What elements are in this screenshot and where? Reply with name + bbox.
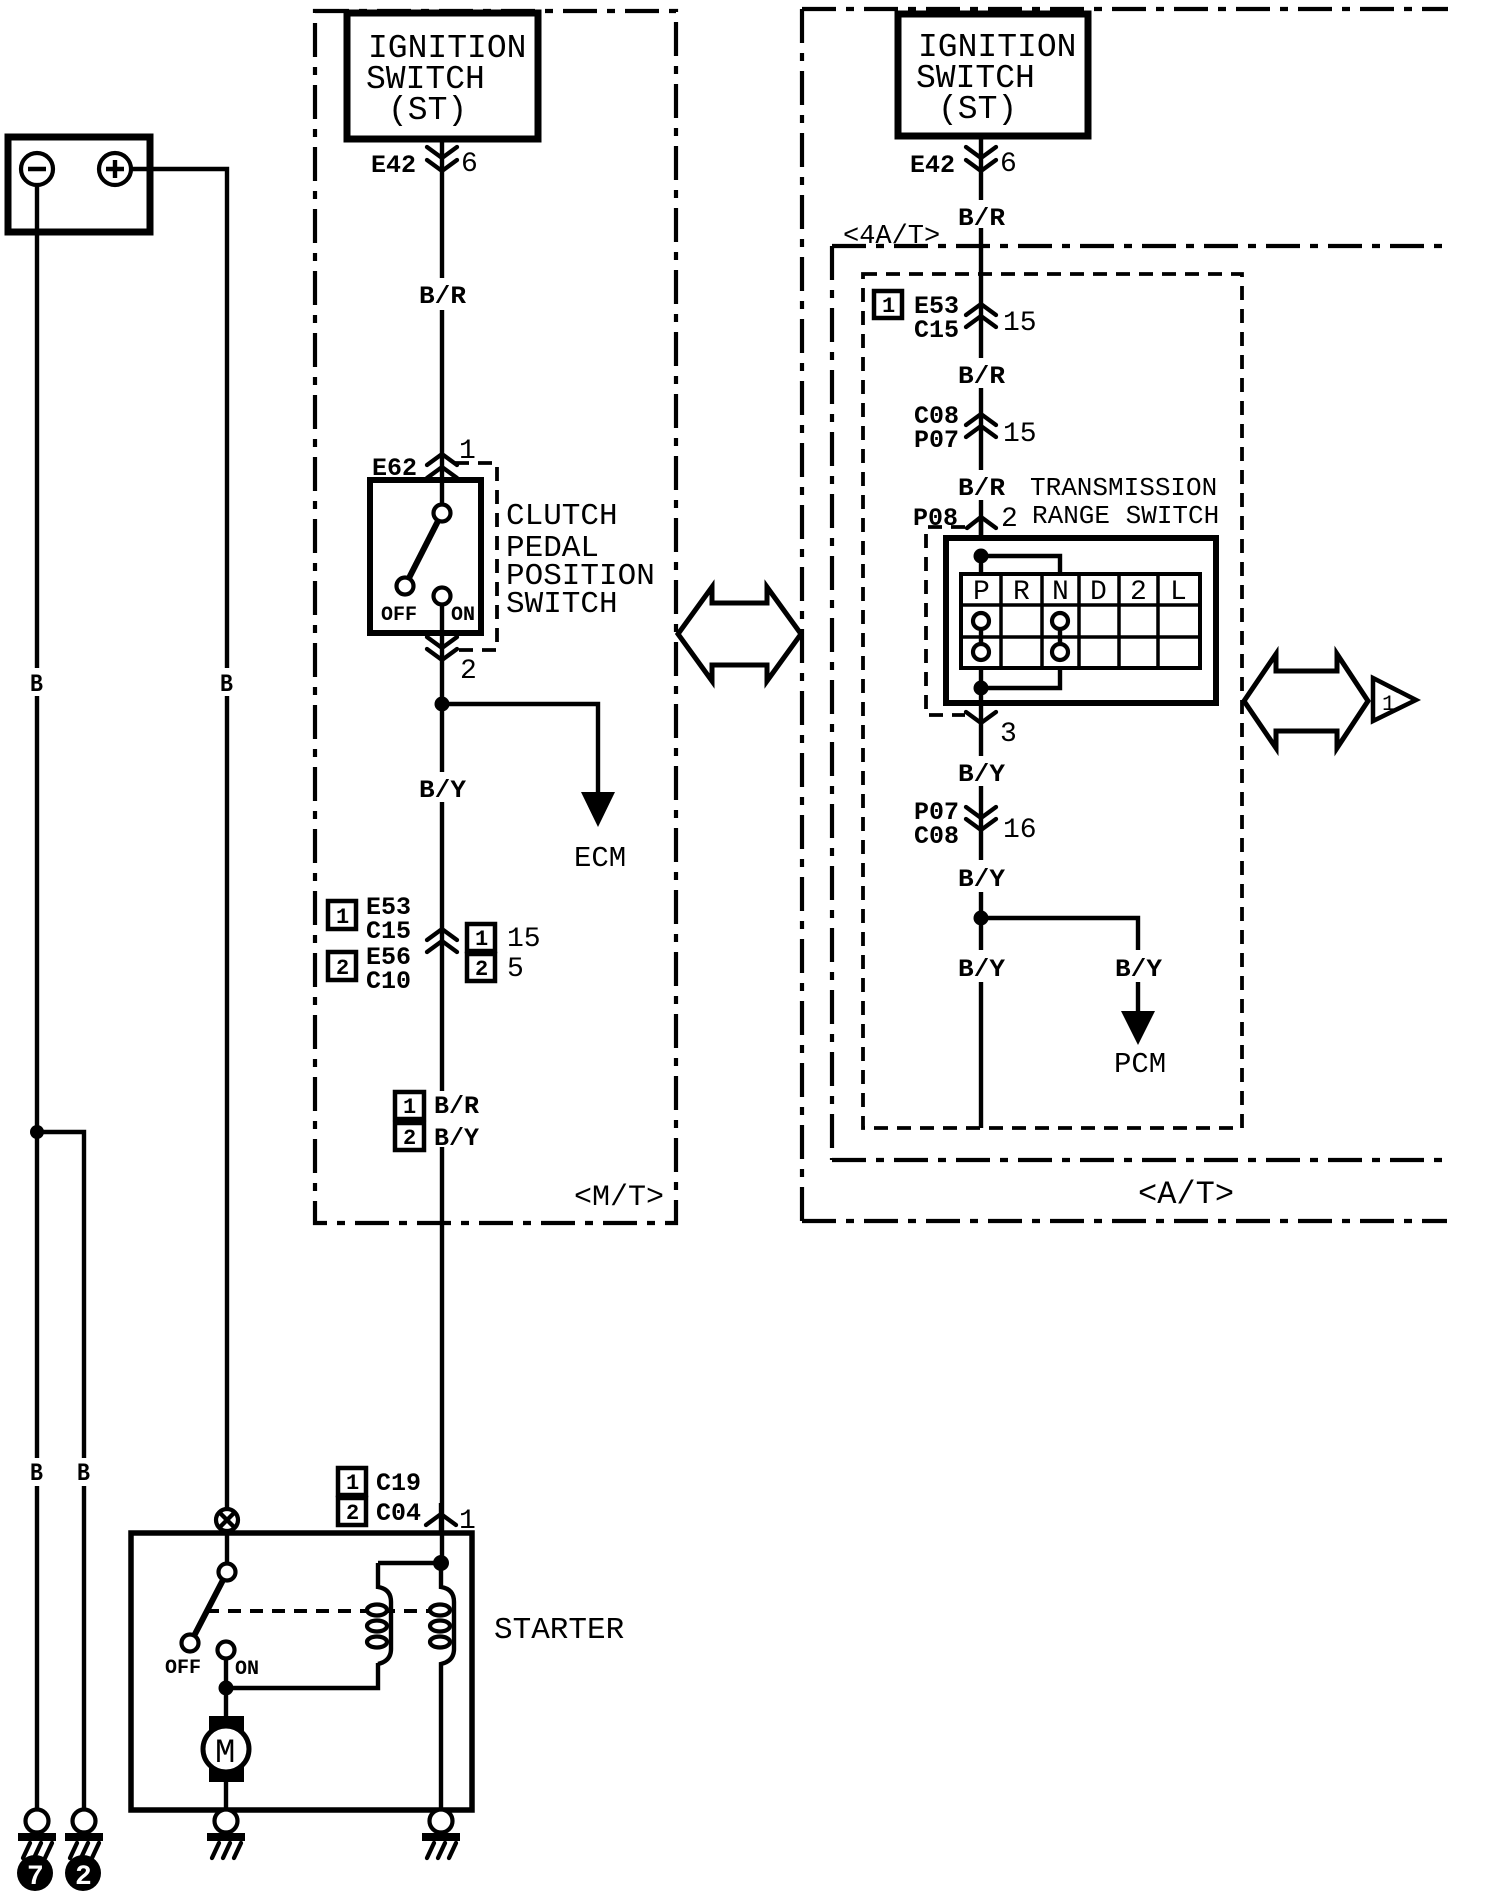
svg-text:B: B (30, 1459, 43, 1488)
svg-text:CLUTCH: CLUTCH (506, 499, 618, 534)
svg-text:C08: C08 (914, 822, 959, 851)
svg-text:B: B (220, 670, 233, 699)
svg-text:B/R: B/R (958, 362, 1005, 391)
wire B/Y segment 1 (979, 723, 983, 860)
battery positive terminal (99, 153, 131, 185)
svg-text:B/Y: B/Y (958, 865, 1005, 894)
arrow to ECM (581, 792, 615, 827)
ground symbol 7 (18, 1810, 56, 1859)
ground starter motor (207, 1810, 245, 1859)
starter switch lever (194, 1580, 223, 1636)
svg-text:(ST): (ST) (388, 92, 467, 129)
wire ON contact to motor (224, 1658, 228, 1717)
svg-text:2: 2 (346, 1501, 359, 1526)
M/T section boundary (315, 11, 676, 1223)
wire label B/Y (M/T) (419, 776, 466, 805)
connector E42 pin 6 (M/T) (371, 147, 478, 180)
starter switch ON contact (218, 1642, 260, 1682)
connector E42 pin 6 (A/T) (910, 147, 1017, 180)
node B/Y branch (974, 911, 989, 926)
svg-text:B/Y: B/Y (419, 776, 466, 805)
svg-text:PCM: PCM (1114, 1048, 1166, 1081)
svg-text:1: 1 (475, 927, 488, 952)
wire clutch switch to node (440, 633, 444, 704)
wire ground branch (37, 1132, 84, 1810)
svg-text:B: B (30, 670, 43, 699)
connector pin 3 below range switch (966, 712, 1017, 750)
svg-text:1: 1 (882, 294, 895, 319)
ignition switch (ST) M/T (347, 13, 538, 139)
svg-text:B/Y: B/Y (1115, 955, 1162, 984)
connector circle on positive wire (216, 1509, 238, 1531)
wire P column to bottom node (979, 668, 983, 688)
svg-text:L: L (1170, 577, 1187, 608)
svg-text:ON: ON (235, 1658, 259, 1681)
battery negative terminal (21, 153, 53, 185)
battery (8, 137, 150, 232)
svg-text:B/Y: B/Y (958, 760, 1005, 789)
svg-text:M: M (215, 1735, 235, 1773)
svg-text:B/Y: B/Y (434, 1124, 479, 1153)
node negative wire junction (30, 1125, 44, 1139)
svg-text:ECM: ECM (574, 842, 626, 875)
connector E53/C15 pin 15 (A/T) (874, 291, 1037, 345)
svg-text:STARTER: STARTER (494, 1613, 624, 1648)
connector C19/C04 pin 1 (338, 1468, 476, 1537)
starter switch contact top (219, 1531, 236, 1581)
connector P08 pin 2 (913, 504, 1018, 535)
svg-text:OFF: OFF (381, 604, 417, 627)
svg-text:1: 1 (336, 905, 349, 930)
wire into starter (439, 1503, 443, 1533)
svg-text:B: B (77, 1459, 90, 1488)
svg-text:B/R: B/R (958, 204, 1005, 233)
svg-text:C15: C15 (366, 917, 411, 946)
svg-text:2: 2 (1130, 577, 1147, 608)
PCM label (1114, 1048, 1166, 1081)
wire junction to pull coil (378, 1561, 441, 1565)
svg-text:2: 2 (403, 1126, 416, 1151)
svg-text:E42: E42 (371, 151, 416, 180)
transmission dashed boundary (863, 274, 1242, 1128)
arrow to PCM (1121, 1011, 1155, 1045)
wire label B/Y (A/T 4) (1115, 955, 1162, 984)
wire B/Y segment 2 (979, 892, 983, 950)
wire color labels [1] B/R [2] B/Y (395, 1092, 479, 1153)
solenoid hold-in coil (367, 1563, 391, 1664)
svg-text:15: 15 (507, 924, 541, 955)
connector C08/P07 pin 15 (914, 402, 1037, 455)
wire branch to ECM (442, 704, 598, 792)
svg-text:(ST): (ST) (938, 91, 1017, 128)
node starter motor junction (219, 1681, 234, 1696)
range switch P contacts (973, 613, 989, 660)
wire to starter connector (440, 1147, 444, 1563)
svg-text:6: 6 (461, 149, 478, 180)
transmission range switch label (1030, 473, 1219, 531)
svg-text:1: 1 (403, 1095, 416, 1120)
transmission range switch box (946, 538, 1216, 703)
svg-text:15: 15 (1003, 308, 1037, 339)
clutch pedal position switch E62 (370, 480, 481, 633)
connector pin 2 below clutch switch (427, 637, 477, 687)
svg-text:SWITCH: SWITCH (506, 587, 618, 622)
wire out of range switch (979, 688, 983, 723)
wire label B (negative lower) (30, 1459, 43, 1488)
wire B/R segment 2 (979, 388, 983, 470)
starter label (494, 1613, 624, 1648)
wire ignition to clutch switch (440, 139, 444, 480)
svg-text:P07: P07 (914, 426, 959, 455)
wire battery positive to starter (131, 169, 227, 1509)
wire battery negative to ground (35, 185, 39, 1810)
wire ignition A/T down (979, 136, 983, 358)
section link arrow A/T continuation (1244, 654, 1368, 748)
node range switch top (974, 549, 989, 564)
wire B/Y to boundary (979, 982, 983, 1128)
svg-text:2: 2 (75, 1862, 92, 1893)
ground number 2 (65, 1855, 101, 1893)
svg-text:2: 2 (1001, 504, 1018, 535)
svg-text:B/R: B/R (419, 282, 466, 311)
svg-text:2: 2 (475, 957, 488, 982)
4A/T section boundary (832, 246, 1444, 1160)
svg-text:3: 3 (1000, 719, 1017, 750)
node clutch switch output (435, 697, 450, 712)
svg-text:<4A/T>: <4A/T> (843, 222, 940, 252)
svg-text:OFF: OFF (165, 1657, 201, 1680)
wire node to hold coil (226, 1663, 378, 1688)
svg-text:C19: C19 (376, 1469, 421, 1498)
P08 dashed outline (926, 527, 965, 715)
svg-text:R: R (1013, 577, 1030, 608)
svg-text:B/R: B/R (958, 474, 1005, 503)
wire N column to bottom node (981, 668, 1060, 688)
wire node to N column (981, 556, 1060, 574)
wire label B (branch) (77, 1459, 90, 1488)
4A/T label (843, 222, 940, 252)
svg-text:1: 1 (1382, 692, 1395, 717)
wire label B/Y (A/T 1) (958, 760, 1005, 789)
ground starter coil (422, 1810, 460, 1859)
ECM label (574, 842, 626, 875)
off-page reference triangle 1 (1373, 678, 1416, 721)
solenoid pull-in coil (430, 1563, 454, 1810)
clutch pedal position switch label (506, 499, 655, 622)
wire B/R segment 3 (979, 500, 983, 556)
svg-text:1: 1 (346, 1471, 359, 1496)
A/T section label (1138, 1176, 1234, 1213)
svg-text:B/R: B/R (434, 1092, 479, 1121)
wire label B/Y (A/T 3) (958, 955, 1005, 984)
starter switch OFF contact (165, 1635, 201, 1681)
connector P07/C08 pin 16 (914, 798, 1037, 851)
wire label B/R (M/T) (419, 282, 466, 311)
svg-text:N: N (1052, 577, 1069, 608)
section link arrow M/T to A/T (678, 587, 801, 681)
svg-text:C04: C04 (376, 1499, 421, 1528)
svg-text:<A/T>: <A/T> (1138, 1176, 1234, 1213)
range switch N contacts (1052, 613, 1068, 660)
clutch pedal position switch dashed outline (452, 463, 497, 650)
ignition switch (ST) A/T (898, 14, 1088, 136)
wire label B/Y (A/T 2) (958, 865, 1005, 894)
wire node to P column (979, 556, 983, 574)
svg-text:E42: E42 (910, 151, 955, 180)
mechanical link dashed (206, 1609, 438, 1613)
svg-text:5: 5 (507, 954, 524, 985)
svg-text:RANGE SWITCH: RANGE SWITCH (1032, 501, 1219, 531)
wire label B/R (A/T 1) (958, 204, 1005, 233)
svg-text:15: 15 (1003, 419, 1037, 450)
ground number 7 (17, 1855, 53, 1893)
starter box (131, 1533, 472, 1810)
starter motor M (203, 1716, 249, 1810)
wire label B/R (A/T 2) (958, 362, 1005, 391)
connector E53/C15 E56/C10 (M/T) (328, 893, 541, 996)
grid letters P R N D 2 L (973, 577, 1187, 608)
range switch grid (961, 574, 1200, 668)
svg-text:7: 7 (27, 1862, 44, 1893)
node pull coil top (433, 1555, 449, 1571)
M/T section label (574, 1181, 664, 1215)
svg-text:D: D (1090, 577, 1107, 608)
A/T section boundary (802, 9, 1448, 1221)
wire B/Y down from node (440, 704, 444, 1091)
svg-text:2: 2 (336, 956, 349, 981)
wire label B (battery positive) (220, 670, 233, 699)
svg-text:C15: C15 (914, 316, 959, 345)
wire branch to PCM (981, 918, 1138, 1011)
svg-text:P: P (973, 577, 990, 608)
svg-text:6: 6 (1000, 149, 1017, 180)
svg-text:<M/T>: <M/T> (574, 1181, 664, 1215)
wire label B (negative upper) (30, 670, 43, 699)
svg-text:2: 2 (460, 656, 477, 687)
svg-text:TRANSMISSION: TRANSMISSION (1030, 473, 1217, 503)
svg-text:16: 16 (1003, 815, 1037, 846)
svg-text:B/Y: B/Y (958, 955, 1005, 984)
wire label B/R (A/T 3) (958, 474, 1005, 503)
wire into range switch (979, 517, 983, 538)
connector E62 pin 1 (372, 436, 476, 483)
ground symbol 2 (65, 1810, 103, 1859)
node range switch bottom (974, 681, 989, 696)
svg-text:C10: C10 (366, 967, 411, 996)
svg-text:ON: ON (451, 604, 475, 627)
